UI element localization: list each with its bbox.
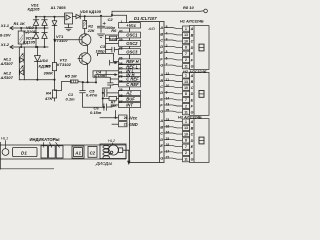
node dots R5 wire xyxy=(53,79,97,84)
wire REF bracket xyxy=(97,50,113,56)
wire segment F digit 3 xyxy=(164,152,183,153)
svg-text:C REF: C REF xyxy=(126,77,139,82)
pin box 27 INT xyxy=(119,102,141,107)
svg-text:B: B xyxy=(191,80,194,84)
svg-text:G: G xyxy=(160,156,163,161)
svg-text:REF H: REF H xyxy=(126,59,139,64)
capacitor C6 xyxy=(104,104,119,110)
svg-text:C: C xyxy=(191,86,194,90)
svg-text:G: G xyxy=(160,109,163,114)
svg-text:-Vcc: -Vcc xyxy=(129,115,138,120)
svg-text:21: 21 xyxy=(124,123,128,127)
diode lens 1 xyxy=(103,145,110,148)
wire arrow into pin IN H xyxy=(96,75,115,83)
svg-text:0.47m: 0.47m xyxy=(86,92,98,97)
svg-text:E: E xyxy=(160,96,163,101)
svg-text:0.15m: 0.15m xyxy=(90,110,102,115)
svg-text:A: A xyxy=(190,74,194,78)
svg-text:7: 7 xyxy=(185,145,187,149)
svg-text:HL2: HL2 xyxy=(108,138,116,143)
wire +5V rail xyxy=(80,11,203,23)
IC D1 ICL7107 body xyxy=(130,22,165,163)
svg-text:2: 2 xyxy=(185,104,187,108)
svg-text:OSC3: OSC3 xyxy=(126,49,138,54)
svg-text:27: 27 xyxy=(119,100,123,104)
svg-text:C: C xyxy=(160,131,163,136)
svg-text:33: 33 xyxy=(119,74,123,78)
wire segment C digit 2 xyxy=(164,87,183,88)
wire segment G digit 3 xyxy=(164,158,183,159)
svg-text:11: 11 xyxy=(184,65,188,69)
svg-text:100K: 100K xyxy=(110,37,118,41)
svg-text:29: 29 xyxy=(119,88,123,92)
transistor VT2 xyxy=(79,53,91,65)
svg-text:17: 17 xyxy=(166,149,170,153)
svg-text:КТ3102: КТ3102 xyxy=(57,62,72,67)
svg-text:6: 6 xyxy=(166,56,168,60)
border frame left xyxy=(0,142,54,170)
svg-text:C: C xyxy=(191,40,194,44)
wire segment B digit 1 xyxy=(164,34,183,35)
diode lens 4 xyxy=(103,156,110,159)
wire arrow into pin REF L xyxy=(110,60,115,65)
svg-text:40: 40 xyxy=(119,30,123,34)
svg-text:КТ3107: КТ3107 xyxy=(54,38,69,43)
wire rail x54 xyxy=(54,40,56,101)
svg-text:26: 26 xyxy=(124,116,128,120)
diode VD5 xyxy=(76,14,80,19)
svg-text:10: 10 xyxy=(166,84,170,88)
LED HL1 on panel xyxy=(2,149,9,156)
svg-text:22K: 22K xyxy=(87,29,95,33)
resistor R2 xyxy=(84,16,86,34)
diode VD2 bridge mid-left xyxy=(33,28,38,47)
diode lens 3 xyxy=(103,152,110,155)
svg-text:ИНДИКАТОРЫ: ИНДИКАТОРЫ xyxy=(30,137,60,142)
svg-text:13: 13 xyxy=(184,33,188,37)
node dot VD4 bottom xyxy=(36,79,38,81)
svg-text:8: 8 xyxy=(185,139,187,143)
capacitor C1 xyxy=(80,82,104,107)
resistor R5 xyxy=(70,80,78,83)
svg-text:BUF: BUF xyxy=(126,97,135,102)
svg-text:13: 13 xyxy=(184,126,188,130)
diodes box on panel xyxy=(100,144,126,159)
wire segment G digit 1 xyxy=(164,65,183,66)
display H1 ALS324B xyxy=(183,26,210,70)
svg-text:15: 15 xyxy=(166,137,170,141)
wire pin34 C REF xyxy=(113,84,119,86)
pin box 36 REF H xyxy=(119,59,141,64)
svg-text:C: C xyxy=(191,133,194,137)
pin box 34 C REF xyxy=(119,82,141,87)
svg-text:5: 5 xyxy=(166,25,168,29)
node dots +5V rail xyxy=(84,14,113,17)
svg-text:1: 1 xyxy=(185,27,187,31)
svg-text:VD5 КД105: VD5 КД105 xyxy=(80,9,102,14)
svg-text:D1: D1 xyxy=(21,151,27,156)
svg-text:R1 1K: R1 1K xyxy=(14,21,26,26)
resistor R3 xyxy=(52,63,56,71)
svg-text:X1.2: X1.2 xyxy=(0,42,10,47)
regulator A1 7805 xyxy=(65,13,73,24)
svg-text:11: 11 xyxy=(184,158,188,162)
svg-text:13: 13 xyxy=(184,80,188,84)
svg-text:1: 1 xyxy=(185,74,187,78)
wire segment G digit 2 xyxy=(164,111,183,112)
svg-text:G: G xyxy=(160,63,163,68)
svg-text:14: 14 xyxy=(166,96,170,100)
wire VT2 emitter down xyxy=(87,64,89,82)
svg-text:8: 8 xyxy=(185,92,187,96)
pin box 35 REF L xyxy=(119,65,141,69)
svg-text:9: 9 xyxy=(166,90,168,94)
svg-text:8-20V: 8-20V xyxy=(0,33,11,38)
svg-text:1: 1 xyxy=(185,120,187,124)
wire pin33 C REF xyxy=(106,77,118,79)
svg-text:28: 28 xyxy=(119,94,123,98)
svg-text:2: 2 xyxy=(166,44,168,48)
svg-text:390K: 390K xyxy=(44,70,55,75)
pin box 39 OSC2 xyxy=(119,41,141,47)
svg-text:22: 22 xyxy=(166,156,170,160)
svg-text:G: G xyxy=(191,65,194,69)
ground under A1 xyxy=(65,24,72,31)
svg-text:A: A xyxy=(159,118,163,123)
wire segment C digit 3 xyxy=(164,133,183,134)
svg-text:A1 7805: A1 7805 xyxy=(51,5,67,10)
diode VD3 bridge mid-right xyxy=(42,28,47,47)
svg-text:7: 7 xyxy=(185,52,187,56)
resistor R1 xyxy=(20,28,22,47)
svg-text:КД105: КД105 xyxy=(23,39,36,44)
svg-text:23: 23 xyxy=(166,118,170,122)
indicator window 1 xyxy=(41,146,48,158)
wire pin36 REF H xyxy=(113,56,118,62)
svg-text:R4: R4 xyxy=(46,90,52,95)
wire segment E digit 2 xyxy=(164,99,183,100)
svg-text:КД105: КД105 xyxy=(28,7,41,12)
svg-text:1: 1 xyxy=(121,20,123,24)
svg-text:34: 34 xyxy=(119,80,123,84)
LED HL1 xyxy=(20,58,24,63)
svg-text:3: 3 xyxy=(166,38,168,42)
box C2 on panel xyxy=(88,147,97,158)
resistor R4 xyxy=(52,90,56,98)
svg-text:АЛ307: АЛ307 xyxy=(0,61,14,66)
wire X1.2 input rail xyxy=(10,45,48,48)
svg-text:8: 8 xyxy=(185,46,187,50)
pin box 21 GND xyxy=(119,122,128,127)
wire pin21 GND xyxy=(112,123,119,125)
display H2 ALS324B xyxy=(183,72,210,115)
wire segment D digit 2 xyxy=(164,93,183,94)
display digit mark H3 xyxy=(199,137,204,144)
indicator pointer lines xyxy=(44,142,60,147)
indicator window 2 xyxy=(49,146,56,158)
wire segment E digit 1 xyxy=(164,53,183,54)
pin box 1 +Vcc xyxy=(119,23,141,28)
capacitor C5 xyxy=(103,89,119,96)
resistor R7 xyxy=(109,96,117,100)
pin box 38 OSC3 xyxy=(119,49,141,55)
wire pin39 OSC2 xyxy=(106,42,119,44)
transistor VT1 xyxy=(79,34,91,46)
ground under C2 xyxy=(98,34,105,38)
wire segment F digit 1 xyxy=(164,59,183,60)
svg-text:47K: 47K xyxy=(44,96,53,101)
terminal circle top right xyxy=(204,9,208,13)
capacitor C4 xyxy=(103,79,113,88)
svg-text:33K: 33K xyxy=(110,104,117,108)
svg-text:R3: R3 xyxy=(46,63,52,68)
svg-text:D: D xyxy=(160,44,163,49)
svg-text:0.15m: 0.15m xyxy=(94,73,106,78)
svg-text:B: B xyxy=(191,126,194,130)
svg-text:X1.1: X1.1 xyxy=(0,23,10,28)
wire LED bottom xyxy=(19,79,54,81)
svg-text:D: D xyxy=(191,92,194,96)
svg-text:ДИОДЫ: ДИОДЫ xyxy=(95,161,112,166)
svg-text:10: 10 xyxy=(184,132,188,136)
svg-text:B: B xyxy=(160,31,163,36)
svg-text:A: A xyxy=(159,25,163,30)
svg-text:R8 10: R8 10 xyxy=(183,5,194,10)
svg-text:C: C xyxy=(160,38,163,43)
svg-text:A1: A1 xyxy=(74,151,81,156)
resistor R6 xyxy=(110,36,117,40)
pin box 29 AZ xyxy=(119,90,141,95)
diode VD4 xyxy=(34,47,40,80)
svg-text:G: G xyxy=(191,158,194,162)
svg-text:D: D xyxy=(160,90,163,95)
svg-text:OSC2: OSC2 xyxy=(126,41,138,46)
node dots bridge xyxy=(20,16,55,48)
display digit mark H2 xyxy=(199,91,204,98)
svg-text:8: 8 xyxy=(166,50,168,54)
svg-text:GND: GND xyxy=(129,122,138,127)
svg-text:D1 ICL7107: D1 ICL7107 xyxy=(134,16,157,21)
svg-text:B: B xyxy=(191,33,194,37)
svg-text:10: 10 xyxy=(184,39,188,43)
diode VD6 on rail xyxy=(52,17,57,40)
pin box 30 IN L xyxy=(119,69,141,73)
svg-text:7: 7 xyxy=(185,98,187,102)
node dots AZ network xyxy=(102,92,105,108)
wire segment D digit 1 xyxy=(164,46,183,47)
wire HL2 out with arrow xyxy=(123,150,129,161)
box A1 on panel xyxy=(72,146,84,158)
svg-text:A: A xyxy=(190,120,194,124)
capacitor C2 xyxy=(97,16,104,32)
LED HL1 column wires xyxy=(19,47,24,80)
svg-text:B: B xyxy=(160,124,163,129)
svg-text:100p: 100p xyxy=(96,48,106,53)
pin box 31 IN H xyxy=(119,73,141,77)
wire segment C digit 1 xyxy=(164,40,183,41)
svg-text:+Vcc: +Vcc xyxy=(126,23,136,28)
svg-text:AZ: AZ xyxy=(125,91,132,96)
svg-text:2: 2 xyxy=(185,58,187,62)
wire segment B digit 3 xyxy=(164,127,183,128)
wire segment B digit 2 xyxy=(164,80,183,81)
svg-text:H3 АЛС324Б: H3 АЛС324Б xyxy=(178,115,202,120)
wire segment F digit 2 xyxy=(164,105,183,106)
svg-text:C2: C2 xyxy=(90,150,96,155)
svg-text:0.1m: 0.1m xyxy=(66,96,76,101)
indicator window 3 xyxy=(56,146,63,158)
svg-text:H1 АЛС324Б: H1 АЛС324Б xyxy=(180,18,204,23)
svg-text:18: 18 xyxy=(166,143,170,147)
svg-text:D: D xyxy=(191,139,194,143)
svg-text:10: 10 xyxy=(184,86,188,90)
svg-text:C REF: C REF xyxy=(126,82,139,87)
pin box 40 OSC1 xyxy=(119,32,141,38)
svg-text:A: A xyxy=(159,72,163,77)
svg-text:2: 2 xyxy=(185,151,187,155)
capacitor C3 xyxy=(106,47,119,52)
LED HL2 on panel xyxy=(108,145,118,155)
svg-text:A: A xyxy=(190,27,194,31)
svg-text:АЛ307: АЛ307 xyxy=(0,75,14,80)
wire segment E digit 3 xyxy=(164,146,183,147)
svg-text:16: 16 xyxy=(166,124,170,128)
diode VD1 bridge top-left xyxy=(33,17,38,28)
svg-text:C: C xyxy=(160,84,163,89)
panel outline xyxy=(0,145,126,159)
LED HL2 xyxy=(20,70,24,75)
svg-text:7: 7 xyxy=(166,63,168,67)
pin box 26 -Vcc xyxy=(119,115,128,120)
capacitor C4 box label xyxy=(93,71,106,77)
wire +rail from bridge to A1 xyxy=(36,16,76,18)
svg-text:HL1: HL1 xyxy=(1,135,8,140)
diode VD1b bridge top-right xyxy=(42,17,47,28)
svg-text:36: 36 xyxy=(119,57,123,61)
svg-text:D: D xyxy=(160,137,163,142)
svg-text:25: 25 xyxy=(166,109,170,113)
wire pin40 OSC1 xyxy=(106,35,119,50)
wire AZ network vertical xyxy=(102,88,104,107)
wire pin26 -Vcc xyxy=(100,111,119,118)
svg-text:R5 1M: R5 1M xyxy=(65,73,77,78)
svg-text:КД105: КД105 xyxy=(24,29,37,34)
svg-text:OSC1: OSC1 xyxy=(126,33,138,38)
IC D1 on panel xyxy=(13,148,37,157)
svg-text:39: 39 xyxy=(119,38,123,42)
svg-text:E: E xyxy=(160,143,163,148)
wire pin30 IN L xyxy=(106,70,118,72)
svg-text:E: E xyxy=(160,50,163,55)
display digit mark H1 xyxy=(199,44,204,51)
svg-text:B: B xyxy=(160,78,163,83)
wire segment A digit 1 xyxy=(164,28,183,29)
pin box 28 BUF xyxy=(119,96,141,101)
svg-text:4: 4 xyxy=(166,31,168,35)
diode lens 2 xyxy=(103,149,110,152)
wire X1.1 input rail xyxy=(10,26,48,29)
svg-text:A/D: A/D xyxy=(148,26,156,31)
svg-text:11: 11 xyxy=(166,78,170,82)
wire segment A digit 3 xyxy=(164,121,183,122)
svg-text:R6: R6 xyxy=(111,28,117,33)
svg-text:C2: C2 xyxy=(108,17,114,22)
display H3 ALS324B xyxy=(183,119,210,163)
svg-text:24: 24 xyxy=(166,131,170,135)
wire segment D digit 3 xyxy=(164,139,183,140)
svg-text:D: D xyxy=(191,46,194,50)
pin box 33 C REF xyxy=(119,77,141,82)
svg-text:INT: INT xyxy=(126,103,133,108)
svg-text:VD4: VD4 xyxy=(40,58,49,63)
node dot VT1 base xyxy=(53,39,55,41)
svg-text:38: 38 xyxy=(119,46,123,50)
svg-text:13: 13 xyxy=(166,103,170,107)
wire segment A digit 2 xyxy=(164,74,183,75)
svg-text:12: 12 xyxy=(166,72,170,76)
